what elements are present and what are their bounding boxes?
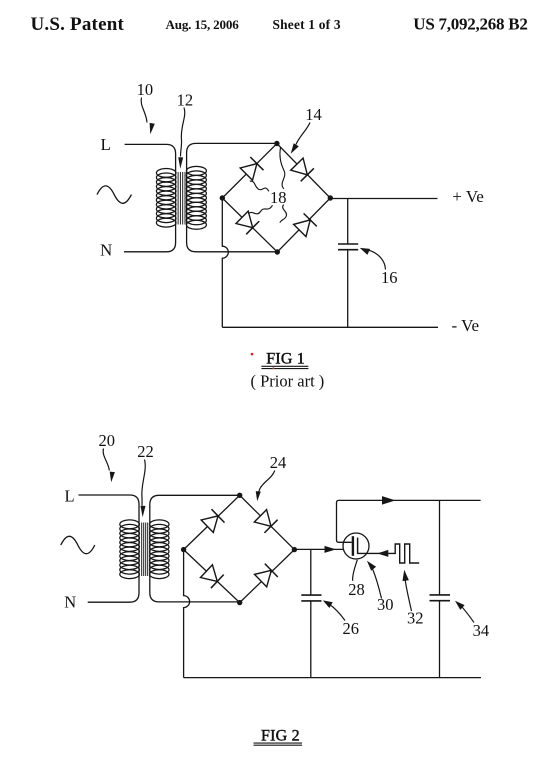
svg-text:34: 34 xyxy=(473,621,490,640)
svg-text:Sheet 1 of 3: Sheet 1 of 3 xyxy=(273,17,341,32)
FIG2 bottom rail xyxy=(184,677,481,679)
FIG2 gate wire + pulse source 32 xyxy=(358,544,420,563)
FIG2 transformer secondary winding xyxy=(150,520,169,579)
FIG2 current-direction arrow on drain wire xyxy=(325,546,337,553)
FIG1 node bottom xyxy=(275,249,280,254)
svg-text:L: L xyxy=(101,135,111,154)
diode FIG1 D upper-left xyxy=(240,157,263,180)
FIG2 node top xyxy=(237,493,242,498)
svg-text:22: 22 xyxy=(137,442,154,461)
FIG2 transformer core xyxy=(142,523,148,577)
FIG2 leader 24 xyxy=(258,471,275,497)
FIG2 capacitor 26 xyxy=(301,550,321,678)
FIG2 MOSFET channel bar xyxy=(352,536,354,556)
svg-text:- Ve: - Ve xyxy=(452,316,480,335)
FIG2 MOSFET 28 circle xyxy=(343,533,369,559)
FIG1 bottom rail xyxy=(222,326,438,328)
svg-text:US 7,092,268 B2: US 7,092,268 B2 xyxy=(413,15,527,34)
FIG1 AC source sine xyxy=(97,186,131,203)
FIG1 node top xyxy=(274,141,279,146)
FIG2 leader 22 xyxy=(142,460,145,506)
FIG2 capacitor 34 xyxy=(430,500,451,677)
FIG2 arrow from pulse source to gate xyxy=(377,550,388,557)
FIG2 leader 20 xyxy=(103,449,109,471)
FIG2 leader 30 xyxy=(373,570,382,599)
FIG2 MOSFET gate bar xyxy=(357,538,359,554)
FIG2 wire L + primary + wire N xyxy=(79,495,140,602)
FIG2 leader 32 xyxy=(405,581,411,612)
svg-text:+ Ve: + Ve xyxy=(452,187,483,206)
FIG1 red speck 2 xyxy=(272,367,274,369)
FIG2 node left xyxy=(181,547,186,552)
svg-text:FIG 1: FIG 1 xyxy=(266,351,305,368)
FIG1 bridge wires xyxy=(222,144,330,253)
FIG1 transformer core xyxy=(178,172,185,225)
FIG1 wire L + primary + wire N xyxy=(124,144,176,251)
FIG2 node right xyxy=(292,547,297,552)
FIG1 red speck 1 xyxy=(251,353,254,356)
svg-text:FIG 2: FIG 2 xyxy=(261,727,300,744)
FIG1 leader 16 xyxy=(369,250,386,269)
FIG2 node bottom xyxy=(237,600,242,605)
svg-text:20: 20 xyxy=(99,431,116,450)
svg-text:24: 24 xyxy=(270,453,287,472)
FIG1 leader 18 to UL diode xyxy=(250,181,269,191)
diode FIG1 D lower-right xyxy=(294,213,317,236)
FIG1 leader 18 to LL diode xyxy=(248,205,272,214)
FIG1 leader 12 xyxy=(181,108,185,157)
FIG1 transformer secondary winding xyxy=(186,166,206,229)
FIG1 wire left-node down with hop xyxy=(222,198,228,327)
FIG1 node left xyxy=(220,195,225,200)
FIG2 wire left-node down with hop xyxy=(184,550,190,678)
FIG1 transformer primary winding xyxy=(156,169,176,228)
diode FIG2 D lower-right xyxy=(255,564,278,587)
FIG2 caption underline xyxy=(254,742,303,744)
svg-text:32: 32 xyxy=(407,608,424,627)
svg-text:28: 28 xyxy=(348,580,365,599)
diode FIG2 D upper-right xyxy=(254,510,277,533)
FIG2 leader 28 xyxy=(353,560,358,581)
svg-text:L: L xyxy=(65,486,75,505)
diode FIG1 D upper-right xyxy=(291,158,314,181)
FIG2 AC source sine xyxy=(61,536,95,553)
FIG1 leader 14 xyxy=(296,123,310,145)
FIG2 leader 34 xyxy=(461,606,474,623)
FIG1 leader 18 to LR diode xyxy=(280,205,287,223)
svg-text:30: 30 xyxy=(377,595,394,614)
FIG2 wire bridge to MOSFET xyxy=(294,548,352,550)
FIG2 current-direction arrow on top wire xyxy=(382,496,396,505)
svg-text:U.S. Patent: U.S. Patent xyxy=(31,14,125,35)
diode FIG1 D lower-left xyxy=(236,211,259,234)
FIG2 transformer secondary wires xyxy=(150,495,240,602)
FIG1 +Ve wire xyxy=(330,198,437,200)
svg-text:14: 14 xyxy=(305,105,322,124)
svg-text:10: 10 xyxy=(137,80,154,99)
svg-text:16: 16 xyxy=(381,268,398,287)
svg-text:N: N xyxy=(100,241,112,260)
FIG1 leader 10 xyxy=(141,98,147,123)
FIG2 leader 26 xyxy=(329,604,345,621)
FIG1 caption underline xyxy=(261,365,308,367)
svg-text:N: N xyxy=(64,592,76,611)
FIG2 bridge wires xyxy=(184,495,295,602)
svg-text:18: 18 xyxy=(270,188,287,207)
svg-text:12: 12 xyxy=(177,90,194,109)
FIG2 transformer primary winding xyxy=(120,520,140,579)
FIG1 capacitor 16 xyxy=(338,199,358,328)
svg-text:26: 26 xyxy=(343,619,360,638)
svg-text:( Prior art ): ( Prior art ) xyxy=(251,371,325,390)
FIG1 node right xyxy=(328,195,333,200)
FIG1 transformer secondary wires xyxy=(187,143,278,251)
FIG1 leader 18 to UR diode xyxy=(280,147,285,189)
diode FIG2 D upper-left xyxy=(201,509,224,532)
diode FIG2 D lower-left xyxy=(201,565,224,588)
FIG2 MOSFET source line to top xyxy=(337,500,481,542)
svg-text:Aug. 15, 2006: Aug. 15, 2006 xyxy=(166,17,240,32)
